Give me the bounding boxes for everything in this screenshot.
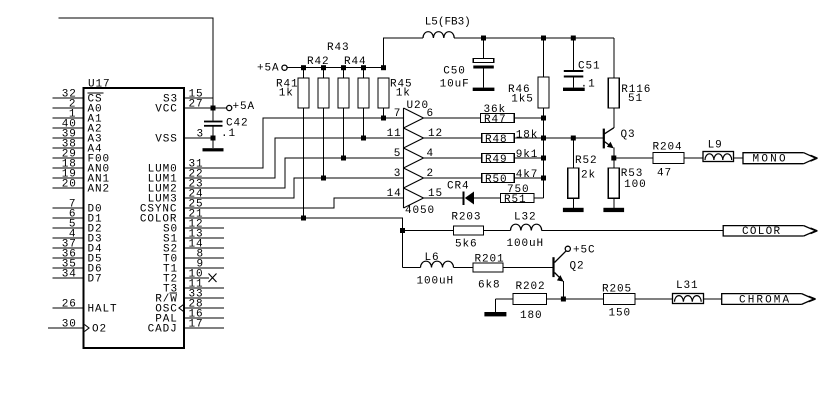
resistor R46 1k5 [543, 38, 545, 77]
buffer U20a pins 7/6 [404, 108, 424, 128]
svg-text:R48: R48 [485, 134, 508, 146]
wire buffer4 out [424, 177, 482, 179]
pin 15 S3 [184, 97, 213, 99]
svg-text:11: 11 [387, 128, 402, 140]
pin 2 A0 [53, 107, 84, 109]
buffer U20e pins 14/15 [404, 188, 424, 208]
ground under R52 [563, 208, 584, 212]
svg-text:30: 30 [62, 318, 77, 330]
pin 12 S0 [184, 227, 224, 229]
wire buffer1 out [424, 117, 481, 119]
resistor R201 6k8 [473, 263, 503, 272]
junction C50 top [481, 36, 486, 41]
svg-text:R203: R203 [451, 212, 481, 224]
ground under C42 [203, 148, 224, 151]
junction VSS/C42 [211, 136, 216, 141]
svg-text:COLOR: COLOR [742, 226, 781, 238]
pin 6 D1 [53, 217, 84, 219]
svg-text:L6: L6 [425, 252, 440, 264]
svg-text:D7: D7 [88, 274, 103, 286]
resistor R202 180 [513, 294, 547, 305]
resistor R116 51 [613, 38, 615, 78]
wire +5A rail [287, 67, 383, 69]
resistor R50 4k7 [482, 174, 515, 183]
wire LUM0 net [184, 118, 404, 168]
pin 28 OSC [184, 307, 224, 309]
svg-text:3: 3 [394, 168, 402, 180]
inductor L6 100uH [421, 261, 454, 267]
svg-text:L9: L9 [708, 139, 723, 151]
pin 13 S1 [184, 237, 224, 239]
svg-text:5k6: 5k6 [455, 239, 478, 251]
svg-text:R50: R50 [485, 174, 508, 186]
pin 33 R/W [184, 297, 224, 299]
wire buffer3 out [424, 157, 482, 159]
connector MONO [743, 153, 804, 164]
resistor R41 1k [303, 68, 305, 78]
pin 16 PAL [184, 317, 224, 319]
pin 14 S2 [184, 247, 224, 249]
pin 36 D5 [53, 257, 84, 259]
svg-text:R42: R42 [307, 56, 330, 68]
svg-text:14: 14 [387, 188, 402, 200]
svg-text:CR4: CR4 [447, 181, 470, 193]
junction C51 top [571, 36, 576, 41]
inductor L5 (FB3) [423, 32, 454, 38]
svg-text:L32: L32 [514, 212, 537, 224]
transistor Q3 [544, 137, 604, 139]
svg-text:L5(FB3): L5(FB3) [425, 17, 472, 29]
svg-text:L31: L31 [676, 280, 699, 292]
junction Q3 emitter [611, 156, 616, 161]
svg-text:17: 17 [189, 318, 204, 330]
svg-text:C51: C51 [578, 61, 601, 73]
wire LUM3 net [184, 178, 404, 198]
svg-text:7: 7 [394, 108, 402, 120]
IC U17 [84, 88, 185, 348]
inductor L32 100uH [511, 224, 542, 230]
svg-text:51: 51 [628, 93, 643, 105]
svg-text:R49: R49 [485, 154, 508, 166]
wire buffer2 out [424, 137, 482, 139]
svg-text:AN2: AN2 [88, 184, 111, 196]
pin 32 CS [53, 97, 84, 99]
junction dots +5A rail [301, 65, 306, 70]
svg-text:9k1: 9k1 [516, 149, 539, 161]
pin 39 A3 [53, 137, 84, 139]
wire CSYNC net [184, 198, 404, 208]
svg-text:Q2: Q2 [570, 260, 585, 272]
capacitor C42 .1 [204, 121, 223, 123]
pin 38 A4 [53, 147, 84, 149]
pin 17 CADJ [184, 327, 224, 329]
svg-text:MONO: MONO [753, 154, 787, 166]
svg-text:180: 180 [520, 310, 543, 322]
svg-text:4050: 4050 [405, 205, 435, 217]
pin 18 AN0 [53, 167, 84, 169]
resistor R43 [343, 68, 345, 78]
buffer U20b pins 11/12 [404, 128, 424, 148]
resistor R204 47 [653, 153, 684, 164]
svg-text:VSS: VSS [155, 134, 178, 146]
connector COLOR [723, 226, 804, 236]
svg-text:100: 100 [624, 179, 647, 191]
ground under R53 [603, 208, 624, 212]
pin 11 T3 [184, 287, 224, 289]
pin 4 D3 [53, 237, 84, 239]
svg-text:CADJ: CADJ [148, 324, 178, 336]
svg-text:VCC: VCC [155, 104, 178, 116]
junction R41/COLOR [301, 216, 306, 221]
svg-text:C50: C50 [443, 66, 466, 78]
junction COLOR branch [400, 228, 405, 233]
junction R46 top [541, 36, 546, 41]
wire emitter to R204 [614, 157, 653, 159]
svg-text:20: 20 [62, 178, 77, 190]
svg-text:150: 150 [609, 308, 632, 320]
junction dots buffer inputs [381, 116, 386, 121]
transistor Q2 [552, 257, 554, 277]
svg-text:R205: R205 [602, 284, 632, 296]
svg-text:3: 3 [197, 128, 205, 140]
svg-text:.1: .1 [221, 128, 236, 140]
resistor R49 9k1 [482, 154, 515, 163]
pin 10 T2 no-connect [184, 277, 209, 279]
svg-text:100uH: 100uH [417, 276, 455, 288]
svg-text:6k8: 6k8 [478, 280, 501, 292]
resistor R205 150 [604, 294, 636, 305]
pin 7 D0 [53, 207, 84, 209]
svg-text:2k: 2k [581, 170, 596, 182]
svg-text:47: 47 [657, 168, 672, 180]
pin 26 HALT [53, 307, 84, 309]
resistor R51 750 [501, 194, 535, 203]
svg-text:27: 27 [189, 98, 204, 110]
svg-text:+5A: +5A [233, 101, 256, 113]
pin 27 VCC [184, 107, 227, 109]
wire +5A rail up and over [384, 38, 424, 68]
pin 9 T1 [184, 267, 224, 269]
connector CHROMA [722, 294, 802, 305]
wire COLOR net down to L6 [403, 267, 421, 269]
buffer U20c pins 5/4 [404, 148, 424, 168]
capacitor C50 10uF [483, 38, 485, 59]
svg-text:34: 34 [62, 268, 77, 280]
resistor R47 36k [481, 114, 515, 123]
pin 3 VSS [184, 137, 213, 139]
wire summing node vertical [543, 108, 545, 198]
ground under C51 [563, 88, 585, 91]
wire buffer5 out [424, 197, 463, 199]
svg-text:1k: 1k [279, 88, 294, 100]
diode CR4 [463, 192, 465, 206]
wire COLOR net [184, 218, 403, 268]
resistor R45 1k [378, 78, 389, 108]
junction R52 base [571, 136, 576, 141]
svg-text:R204: R204 [653, 142, 683, 154]
resistor R42 [323, 68, 325, 78]
junction VCC/C42 [211, 106, 216, 111]
inductor L31 [673, 294, 704, 304]
svg-text:10uF: 10uF [440, 79, 470, 91]
svg-text:1k5: 1k5 [511, 94, 534, 106]
pin 5 D2 [53, 227, 84, 229]
svg-text:+5A: +5A [257, 63, 280, 75]
pin 34 D7 [53, 277, 84, 279]
wire top-left to S3/VCC vertical [59, 18, 214, 121]
svg-text:5: 5 [394, 148, 402, 160]
resistor R44 [363, 68, 365, 78]
svg-text:U17: U17 [88, 78, 111, 90]
pin 19 AN1 [53, 177, 84, 179]
pin 29 F00 [53, 157, 84, 159]
svg-text:26: 26 [62, 298, 77, 310]
ground under C50 [473, 88, 495, 91]
svg-text:HALT: HALT [88, 304, 118, 316]
pin 35 D6 [53, 267, 84, 269]
pin 37 D4 [53, 247, 84, 249]
svg-text:R201: R201 [475, 254, 505, 266]
svg-text:1k: 1k [396, 88, 411, 100]
node +5A rail left [282, 65, 287, 70]
pin 30 O2 clock [48, 327, 84, 329]
resistor R53 100 [613, 158, 615, 168]
svg-text:100uH: 100uH [507, 238, 545, 250]
node +5C at Q2 collector [565, 246, 570, 251]
ground left of R202 [484, 312, 506, 316]
wire LUM2 net [184, 158, 404, 188]
svg-text:+5C: +5C [573, 245, 596, 257]
pin 1 A1 [53, 117, 84, 119]
buffer U20d pins 3/2 [404, 168, 424, 188]
pin 8 T0 [184, 257, 224, 259]
wire LUM1 net [184, 138, 404, 178]
inductor L9 [703, 152, 734, 162]
node +5A at VCC [227, 105, 232, 110]
wire to R203 [403, 230, 454, 232]
svg-text:R52: R52 [575, 155, 598, 167]
svg-text:Q3: Q3 [621, 129, 636, 141]
svg-text:36k: 36k [484, 104, 507, 116]
svg-text:R43: R43 [327, 42, 350, 54]
pin 40 A2 [53, 127, 84, 129]
capacitor C51 .1 [572, 38, 574, 70]
svg-text:18k: 18k [516, 129, 539, 141]
resistor R52 2k [572, 138, 574, 168]
svg-text:O2: O2 [92, 324, 107, 336]
pin 20 AN2 [53, 187, 84, 189]
junction Q2 emitter / R202 / R205 [561, 297, 566, 302]
resistor R203 5k6 [454, 226, 484, 235]
resistor R48 18k [482, 134, 515, 143]
svg-text:4k7: 4k7 [516, 169, 539, 181]
svg-text:R202: R202 [516, 281, 546, 293]
svg-text:750: 750 [507, 184, 530, 196]
